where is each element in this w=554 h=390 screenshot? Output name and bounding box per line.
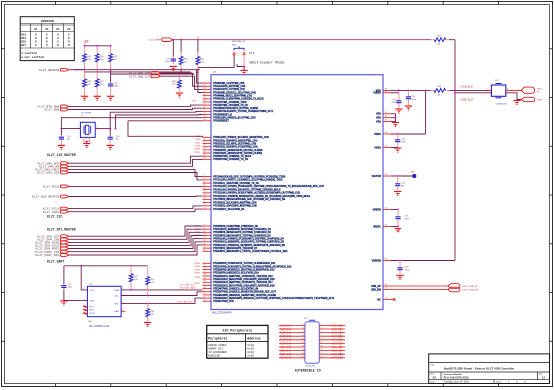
svg-text:VDDA: VDDA <box>374 133 381 136</box>
svg-text:54: 54 <box>385 91 387 93</box>
svg-text:SW-PUSH_2T: SW-PUSH_2T <box>232 41 246 43</box>
svg-text:11: 11 <box>204 265 206 267</box>
svg-text:Peripheral: Peripheral <box>208 337 227 341</box>
svg-text:PTA20/RESET: PTA20/RESET <box>213 120 229 123</box>
svg-text:24.576MHz: 24.576MHz <box>81 112 92 114</box>
svg-text:28: 28 <box>204 300 206 302</box>
svg-text:0x30: 0x30 <box>247 354 254 357</box>
svg-text:KL27_SWD_CLK: KL27_SWD_CLK <box>129 75 150 78</box>
svg-text:KL27_BLE_RESETN: KL27_BLE_RESETN <box>32 195 60 199</box>
svg-text:Date:: Date: <box>430 381 435 384</box>
svg-text:VERSION: VERSION <box>41 19 54 23</box>
svg-text:KL27_I2S_MASTER: KL27_I2S_MASTER <box>47 153 76 157</box>
svg-text:35: 35 <box>385 225 387 227</box>
svg-text:7: 7 <box>321 335 322 337</box>
svg-text:PLA-109-0075-0016: PLA-109-0075-0016 <box>444 376 470 380</box>
svg-text:5: 5 <box>321 331 322 333</box>
svg-text:11: 11 <box>204 227 206 229</box>
svg-text:Document Number: Document Number <box>444 373 463 376</box>
svg-text:1: 1 <box>236 56 237 58</box>
svg-text:KL27_CA9: KL27_CA9 <box>280 357 292 360</box>
svg-text:18: 18 <box>204 268 206 270</box>
svg-text:8: 8 <box>303 335 304 337</box>
svg-text:53: 53 <box>204 198 206 200</box>
svg-text:46: 46 <box>204 100 206 102</box>
svg-text:3: 3 <box>321 328 322 330</box>
svg-text:25: 25 <box>204 91 206 93</box>
svg-text:16: 16 <box>302 349 304 351</box>
svg-text:7: 7 <box>204 110 205 112</box>
svg-text:2: 2 <box>303 324 304 326</box>
svg-text:KL27_CA8: KL27_CA8 <box>280 353 292 356</box>
svg-text:46: 46 <box>204 281 206 283</box>
svg-text:PTE22: PTE22 <box>194 283 200 285</box>
svg-text:32: 32 <box>204 148 206 150</box>
svg-text:4: 4 <box>204 175 205 177</box>
svg-text:7: 7 <box>204 290 205 292</box>
svg-text:PTB1: PTB1 <box>195 139 200 141</box>
svg-text:KL27_I2C: KL27_I2C <box>47 215 62 219</box>
svg-text:MKL27Z256VMP4: MKL27Z256VMP4 <box>212 312 232 315</box>
svg-text:14: 14 <box>204 293 206 295</box>
svg-text:25: 25 <box>204 145 206 147</box>
svg-text:VSSA: VSSA <box>374 146 381 149</box>
svg-text:21: 21 <box>204 296 206 298</box>
svg-text:V1: V1 <box>34 28 38 31</box>
svg-text:23: 23 <box>385 116 387 118</box>
svg-text:25: 25 <box>204 271 206 273</box>
svg-text:USB_DM: USB_DM <box>371 288 381 291</box>
svg-text:43: 43 <box>385 146 387 148</box>
svg-text:KL27_CA5: KL27_CA5 <box>280 342 292 345</box>
svg-text:28: 28 <box>204 119 206 121</box>
svg-text:KL27_CB8: KL27_CB8 <box>332 354 344 356</box>
svg-text:63: 63 <box>385 112 387 114</box>
svg-text:Bootloader Mode: Bootloader Mode <box>250 61 286 66</box>
svg-text:18: 18 <box>302 353 304 355</box>
svg-text:39: 39 <box>204 277 206 279</box>
svg-text:18: 18 <box>204 231 206 233</box>
svg-text:EXTENSIBLE IO: EXTENSIBLE IO <box>295 368 321 372</box>
svg-text:48: 48 <box>385 259 387 261</box>
svg-text:25: 25 <box>204 234 206 236</box>
svg-text:V2: V2 <box>45 28 49 31</box>
svg-text:PTE0/SPI1_MISO/UART1_TX/RTC_CL: PTE0/SPI1_MISO/UART1_TX/RTC_CLKOUT/CMP0_… <box>213 250 288 253</box>
svg-text:VOUT33: VOUT33 <box>371 175 381 178</box>
svg-text:x stuffed: x stuffed <box>21 51 37 55</box>
svg-text:VSS: VSS <box>537 99 542 101</box>
svg-text:4: 4 <box>204 81 205 83</box>
svg-text:VDDIO: VDDIO <box>373 92 381 95</box>
svg-text:4: 4 <box>204 224 205 226</box>
svg-text:42: 42 <box>385 174 387 176</box>
svg-text:MxR2280: MxR2280 <box>208 354 220 357</box>
svg-text:PTE16: PTE16 <box>194 263 200 265</box>
svg-text:15: 15 <box>321 349 323 351</box>
svg-text:VDD: VDD <box>537 88 542 90</box>
svg-text:32: 32 <box>204 94 206 96</box>
svg-text:KL27_CA0: KL27_CA0 <box>280 324 292 327</box>
svg-text:I2C Peripherals: I2C Peripherals <box>223 328 253 332</box>
svg-text:7: 7 <box>122 301 123 303</box>
svg-text:KL27_UART: KL27_UART <box>47 259 64 263</box>
svg-text:VSS: VSS <box>376 117 381 120</box>
svg-text:60: 60 <box>204 250 206 252</box>
svg-text:4: 4 <box>204 262 205 264</box>
svg-text:39: 39 <box>204 151 206 153</box>
svg-text:KL27_CA2: KL27_CA2 <box>280 332 292 335</box>
svg-text:3: 3 <box>122 294 123 296</box>
svg-text:60: 60 <box>204 287 206 289</box>
svg-text:KL27_USB_DP: KL27_USB_DP <box>462 286 478 288</box>
svg-text:KL27_SW0: KL27_SW0 <box>45 108 60 112</box>
svg-text:KL27_MIC_SDA: KL27_MIC_SDA <box>180 286 196 289</box>
svg-text:20140-209: 20140-209 <box>305 366 316 368</box>
svg-text:46: 46 <box>204 155 206 157</box>
svg-text:I2C ADDR.0x10: I2C ADDR.0x10 <box>89 324 110 328</box>
svg-text:SDA: SDA <box>114 289 119 292</box>
svg-text:I_VDD_KL27: I_VDD_KL27 <box>459 85 474 88</box>
svg-text:+3.3V: +3.3V <box>191 100 197 102</box>
svg-text:8: 8 <box>122 309 123 311</box>
svg-text:14: 14 <box>204 207 206 209</box>
svg-text:PTB2: PTB2 <box>195 142 200 144</box>
svg-text:12: 12 <box>302 342 304 344</box>
svg-text:PTB19/TPM2_CH1/I2S0_TX_FS: PTB19/TPM2_CH1/I2S0_TX_FS <box>213 158 248 161</box>
svg-text:44: 44 <box>385 132 387 134</box>
svg-text:KL27_SDA1: KL27_SDA1 <box>43 210 60 214</box>
svg-text:PTE31/TPM0_CH4: PTE31/TPM0_CH4 <box>213 300 234 303</box>
svg-text:19: 19 <box>385 298 387 300</box>
svg-text:PTE20: PTE20 <box>194 277 200 279</box>
svg-text:VREFL: VREFL <box>373 225 381 228</box>
svg-text:KL27_MCLK: KL27_MCLK <box>43 184 60 188</box>
svg-text:22: 22 <box>385 288 387 290</box>
svg-text:46: 46 <box>204 194 206 196</box>
svg-text:34: 34 <box>385 208 387 210</box>
svg-text:PTB3: PTB3 <box>195 146 200 148</box>
svg-text:KL27_CB7: KL27_CB7 <box>332 351 344 353</box>
svg-text:NC3: NC3 <box>90 313 95 315</box>
svg-text:VCC: VCC <box>90 290 95 292</box>
svg-text:11: 11 <box>321 342 323 344</box>
svg-text:7: 7 <box>204 204 205 206</box>
svg-text:KL27_DMA_DIN: KL27_DMA_DIN <box>37 171 59 175</box>
svg-text:NC2: NC2 <box>90 310 95 312</box>
svg-text:GND: GND <box>90 300 95 302</box>
svg-text:39: 39 <box>204 240 206 242</box>
svg-text:VSS: VSS <box>376 120 381 123</box>
svg-text:11: 11 <box>204 85 206 87</box>
svg-text:KL27_CB9: KL27_CB9 <box>332 358 344 360</box>
svg-text:KL27_CB6: KL27_CB6 <box>332 347 344 349</box>
svg-text:2: 2 <box>122 288 123 290</box>
svg-text:6: 6 <box>303 331 304 333</box>
svg-text:Rev: Rev <box>539 374 543 376</box>
svg-text:5103822121: 5103822121 <box>496 104 508 106</box>
svg-text:39: 39 <box>204 97 206 99</box>
svg-text:KL27_MIC_RST: KL27_MIC_RST <box>178 301 194 303</box>
svg-text:PTE17: PTE17 <box>194 266 200 268</box>
svg-text:53: 53 <box>204 103 206 105</box>
svg-text:19: 19 <box>321 356 323 358</box>
svg-text:PTC10/I2C1_SCL/FXIO0_D4: PTC10/I2C1_SCL/FXIO0_D4 <box>213 208 245 211</box>
svg-text:14: 14 <box>204 113 206 115</box>
svg-text:14: 14 <box>302 346 304 348</box>
svg-text:KL27_CB5: KL27_CB5 <box>332 343 344 345</box>
svg-text:KL27_CA3: KL27_CA3 <box>280 335 292 338</box>
svg-text:21: 21 <box>385 284 387 286</box>
svg-text:53: 53 <box>204 158 206 160</box>
svg-text:11: 11 <box>204 178 206 180</box>
svg-text:KL27_CB2: KL27_CB2 <box>332 333 344 335</box>
svg-text:9: 9 <box>321 338 322 340</box>
svg-text:53: 53 <box>204 246 206 248</box>
svg-text:47: 47 <box>385 120 387 122</box>
svg-text:KL27_CA7: KL27_CA7 <box>280 350 292 353</box>
svg-text:1: 1 <box>84 298 85 300</box>
svg-text:V3: V3 <box>56 28 60 31</box>
svg-text:32: 32 <box>204 188 206 190</box>
svg-text:KL27_VREF: KL27_VREF <box>149 40 162 42</box>
svg-text:18: 18 <box>204 181 206 183</box>
svg-text:10: 10 <box>302 338 304 340</box>
svg-text:2: 2 <box>242 56 243 58</box>
svg-text:V4: V4 <box>67 28 71 31</box>
svg-text:KL27_CB4: KL27_CB4 <box>332 340 344 342</box>
svg-text:KL27_CA4: KL27_CA4 <box>280 339 292 342</box>
svg-text:PTE19: PTE19 <box>194 273 200 275</box>
svg-text:KL27_RESETB: KL27_RESETB <box>39 68 59 72</box>
svg-text:18: 18 <box>204 142 206 144</box>
svg-text:NC: NC <box>377 298 381 301</box>
svg-text:NanSD75 SDK Board : Xtrinsic K: NanSD75 SDK Board : Xtrinsic KL27 USB Co… <box>444 366 515 370</box>
svg-text:KL27_CA6: KL27_CA6 <box>280 346 292 349</box>
svg-text:46: 46 <box>204 243 206 245</box>
svg-text:KL27_CB0: KL27_CB0 <box>332 325 344 327</box>
svg-text:32: 32 <box>204 274 206 276</box>
svg-text:KL27_USB_DM: KL27_USB_DM <box>462 290 478 292</box>
svg-text:13: 13 <box>321 346 323 348</box>
svg-text:KL27_SPI_MASTER: KL27_SPI_MASTER <box>47 228 76 232</box>
svg-text:PTB17: PTB17 <box>194 152 200 154</box>
svg-text:4: 4 <box>84 288 85 290</box>
svg-text:KL27_UART_RXD: KL27_UART_RXD <box>35 253 59 257</box>
svg-text:o not stuffed: o not stuffed <box>21 55 44 59</box>
svg-text:Address: Address <box>247 337 260 341</box>
svg-text:20: 20 <box>302 356 304 358</box>
svg-text:1.0: 1.0 <box>542 375 546 379</box>
svg-text:17: 17 <box>321 353 323 355</box>
svg-text:PTB16: PTB16 <box>194 149 200 151</box>
svg-text:4: 4 <box>204 136 205 138</box>
svg-text:PTE18: PTE18 <box>194 269 200 271</box>
svg-text:VREFH: VREFH <box>373 208 381 211</box>
svg-text:4: 4 <box>303 328 304 330</box>
svg-text:I_SSD_KL27: I_SSD_KL27 <box>459 99 474 102</box>
svg-text:KL27_CB1: KL27_CB1 <box>332 329 344 331</box>
svg-text:21: 21 <box>204 116 206 118</box>
svg-text:RST: RST <box>115 303 120 305</box>
svg-text:Tuesday, June 14, 2016: Tuesday, June 14, 2016 <box>444 381 470 384</box>
svg-text:18: 18 <box>204 88 206 90</box>
svg-text:60: 60 <box>204 107 206 109</box>
svg-text:32: 32 <box>204 237 206 239</box>
svg-text:1: 1 <box>321 324 322 326</box>
svg-text:25: 25 <box>204 185 206 187</box>
svg-text:PAD: PAD <box>115 310 120 313</box>
svg-text:39: 39 <box>204 191 206 193</box>
svg-text:KL27_CB3: KL27_CB3 <box>332 336 344 338</box>
svg-text:Sheet: Sheet <box>496 381 502 384</box>
svg-text:53: 53 <box>204 284 206 286</box>
svg-text:60: 60 <box>204 201 206 203</box>
svg-text:KL27_CA1: KL27_CA1 <box>280 328 292 331</box>
svg-text:NC1: NC1 <box>90 307 95 309</box>
svg-text:A2: A2 <box>433 375 437 379</box>
svg-text:DCI: DCI <box>249 52 255 55</box>
svg-text:11: 11 <box>204 139 206 141</box>
svg-text:VREGIN: VREGIN <box>372 259 381 262</box>
svg-text:VSS: VSS <box>376 113 381 116</box>
svg-text:KL27_MIC_SCL: KL27_MIC_SCL <box>180 285 196 287</box>
svg-text:R37: R37 <box>21 44 26 47</box>
